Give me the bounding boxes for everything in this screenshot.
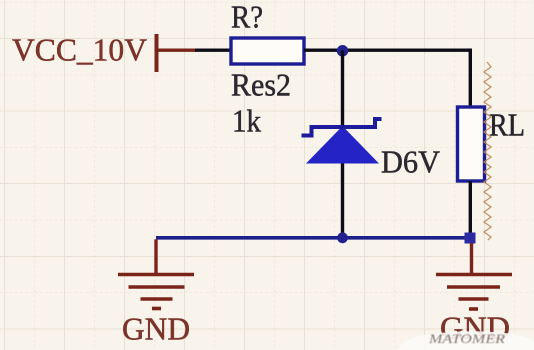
resistor R? body — [231, 38, 304, 64]
power port VCC_10V pin — [158, 49, 196, 52]
junction node B (bottom of zener) — [337, 232, 348, 243]
zener diode D6V triangle (anode) — [306, 126, 379, 164]
bottom wire node — [156, 236, 468, 240]
svg-text:D6V: D6V — [381, 145, 440, 180]
svg-text:RL: RL — [489, 108, 525, 143]
ground pin left — [154, 239, 157, 274]
junction node C (right, square) — [465, 233, 476, 244]
ground symbol right — [436, 275, 512, 310]
compile-error squiggle along RL net — [484, 62, 491, 240]
svg-text:GND: GND — [122, 312, 190, 347]
wire RL bottom to node B — [469, 181, 472, 238]
svg-text:R?: R? — [231, 0, 263, 35]
zener diode D6V cathode bar — [302, 119, 382, 136]
power port VCC_10V bar symbol — [155, 34, 159, 72]
wire top-right corner down to RL — [469, 49, 472, 108]
svg-text:Res2: Res2 — [231, 68, 291, 103]
svg-text:MATOMER: MATOMER — [428, 331, 505, 346]
ground symbol left — [118, 275, 194, 309]
wire R? to top-right corner — [304, 49, 472, 52]
watermark overlay bottom right — [398, 331, 534, 350]
resistor RL body — [458, 107, 485, 181]
ground pin right — [470, 243, 473, 275]
svg-text:VCC_10V: VCC_10V — [12, 33, 147, 68]
junction node A (top of zener) — [337, 45, 349, 57]
svg-text:1k: 1k — [232, 104, 261, 139]
wire junction A down through zener to node B — [341, 50, 344, 237]
wire VCC to R? — [195, 49, 231, 52]
